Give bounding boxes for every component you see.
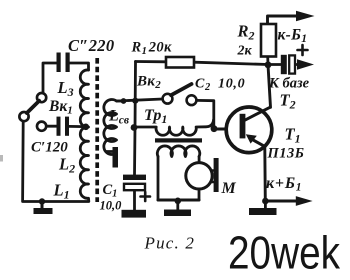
svg-text:к+Б1: к+Б1 (266, 175, 302, 194)
svg-text:Вк2: Вк2 (136, 74, 161, 92)
svg-text:20wek: 20wek (228, 227, 341, 279)
svg-text:П13Б: П13Б (267, 146, 305, 162)
svg-text:К базе: К базе (268, 76, 310, 92)
svg-text:С1: С1 (103, 182, 118, 200)
svg-text:Тр1: Тр1 (144, 107, 167, 126)
svg-text:С210,0: С210,0 (195, 77, 245, 94)
svg-text:Lсв: Lсв (108, 108, 129, 127)
svg-text:L1: L1 (53, 181, 70, 202)
svg-text:R120к: R120к (131, 40, 173, 58)
svg-text:2к: 2к (237, 44, 253, 59)
svg-text:10,0: 10,0 (100, 199, 123, 213)
svg-text:Т2: Т2 (280, 91, 296, 112)
svg-text:к-Б1: к-Б1 (278, 27, 308, 46)
svg-text:С′120: С′120 (31, 140, 68, 156)
svg-text:L2: L2 (58, 155, 75, 176)
svg-text:Рис. 2: Рис. 2 (144, 234, 196, 253)
svg-text:Т1: Т1 (285, 125, 301, 146)
svg-text:С″220: С″220 (68, 36, 114, 55)
svg-text:R2: R2 (237, 22, 255, 43)
svg-text:М: М (221, 180, 237, 197)
svg-text:L3: L3 (57, 78, 74, 99)
svg-text:Вк1: Вк1 (48, 98, 73, 117)
